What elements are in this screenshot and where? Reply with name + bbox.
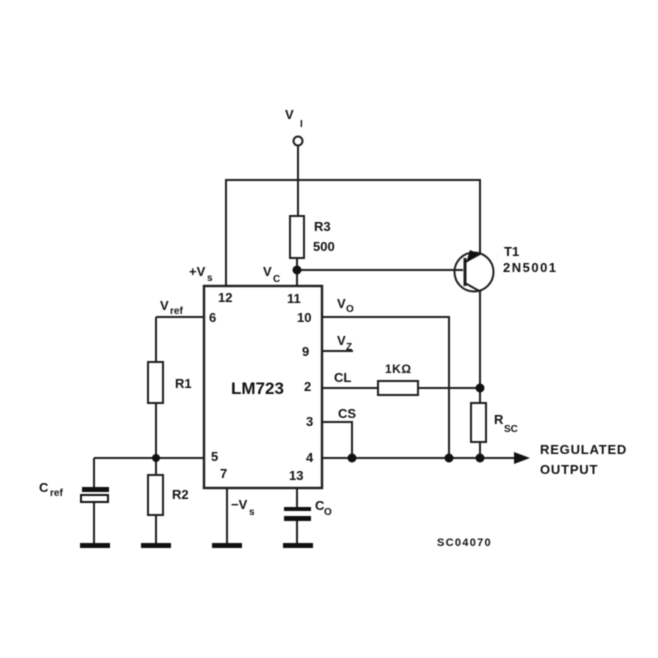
svg-text:9: 9 bbox=[302, 344, 309, 359]
svg-text:V: V bbox=[337, 296, 346, 311]
svg-text:5: 5 bbox=[211, 449, 218, 464]
node R1-R2 junction dot bbox=[152, 454, 160, 462]
wire Co to ground bbox=[296, 520, 298, 544]
wire Rsc to output rail bbox=[479, 442, 481, 458]
ground Co bbox=[283, 543, 313, 548]
svg-text:V: V bbox=[337, 333, 346, 348]
resistor R2 bbox=[148, 475, 163, 515]
svg-text:V: V bbox=[160, 298, 169, 313]
svg-text:ref: ref bbox=[50, 488, 63, 499]
svg-text:6: 6 bbox=[209, 310, 216, 325]
svg-text:2: 2 bbox=[304, 379, 311, 394]
svg-text:OUTPUT: OUTPUT bbox=[540, 462, 598, 477]
svg-text:500: 500 bbox=[313, 239, 335, 254]
svg-text:O: O bbox=[324, 507, 332, 518]
svg-text:SC: SC bbox=[504, 424, 518, 435]
node CS rail dot bbox=[348, 454, 357, 463]
svg-text:s: s bbox=[249, 507, 255, 518]
svg-text:R2: R2 bbox=[172, 487, 189, 502]
wire rail to T1 collector bbox=[479, 179, 481, 254]
wire Vref down to R1 bbox=[155, 317, 157, 362]
wire Vo pin 10 bbox=[322, 317, 449, 458]
ground Cref bbox=[80, 543, 110, 548]
svg-text:3: 3 bbox=[306, 414, 313, 429]
svg-text:R3: R3 bbox=[314, 219, 331, 234]
svg-text:12: 12 bbox=[218, 290, 232, 305]
wire -Vs pin 7 to ground bbox=[226, 488, 228, 544]
wire CS pin 3 stub bbox=[322, 422, 352, 458]
capacitor Co plates bbox=[284, 507, 311, 511]
node Vo rail dot bbox=[445, 454, 454, 463]
ground -Vs bbox=[212, 543, 242, 548]
svg-text:LM723: LM723 bbox=[231, 379, 284, 398]
svg-text:R1: R1 bbox=[175, 376, 192, 391]
svg-text:s: s bbox=[207, 273, 213, 284]
wire Vz stub pin 9 bbox=[322, 350, 353, 352]
wire resistor to emitter line bbox=[418, 387, 480, 389]
wire R1 to node bbox=[155, 403, 157, 458]
node V_I terminal bbox=[294, 137, 303, 146]
svg-text:−V: −V bbox=[231, 497, 248, 512]
wire T1 emitter down to Rsc bbox=[479, 291, 481, 403]
op-amp U1 LM723 box bbox=[204, 286, 322, 488]
wire Vref pin 6 bbox=[156, 316, 204, 318]
wire top rail bbox=[226, 179, 480, 181]
wire V_I down to R3 bbox=[297, 146, 299, 216]
svg-text:11: 11 bbox=[287, 291, 301, 306]
wire R2 top bbox=[155, 458, 157, 475]
wire R2 to ground bbox=[155, 515, 157, 544]
wire CL pin 2 to resistor bbox=[322, 387, 378, 389]
svg-text:1KΩ: 1KΩ bbox=[385, 362, 411, 376]
svg-text:10: 10 bbox=[297, 310, 311, 325]
wire Cref bottom to ground bbox=[93, 502, 95, 544]
wire R3 to pin 11 bbox=[296, 258, 298, 286]
output arrow head bbox=[514, 452, 530, 464]
svg-text:V: V bbox=[285, 107, 294, 122]
svg-text:Z: Z bbox=[346, 342, 352, 353]
resistor R1 bbox=[148, 362, 163, 403]
wire output rail pin 4 bbox=[322, 457, 515, 459]
wire Cref top bbox=[93, 458, 95, 489]
node CL junction dot bbox=[476, 384, 485, 393]
wire Co pin 13 bbox=[296, 488, 298, 509]
svg-text:T1: T1 bbox=[504, 244, 519, 259]
transistor emitter arrow bbox=[466, 250, 479, 263]
svg-text:4: 4 bbox=[306, 450, 314, 465]
node Vc junction dot bbox=[293, 266, 302, 275]
node Rsc rail dot bbox=[476, 454, 485, 463]
svg-text:13: 13 bbox=[289, 468, 303, 483]
wire base from Vc node bbox=[297, 269, 463, 271]
svg-text:2N5001: 2N5001 bbox=[503, 260, 558, 275]
wire node rail to pin 5 bbox=[94, 457, 204, 459]
svg-text:CL: CL bbox=[334, 370, 351, 385]
svg-text:O: O bbox=[346, 304, 354, 315]
resistor RSC bbox=[471, 403, 486, 442]
svg-text:SC04070: SC04070 bbox=[437, 537, 492, 549]
svg-text:7: 7 bbox=[220, 466, 227, 481]
transistor Q1 body bbox=[455, 253, 494, 292]
resistor R3 bbox=[290, 216, 304, 258]
svg-text:R: R bbox=[494, 412, 504, 427]
svg-text:C: C bbox=[273, 274, 280, 285]
svg-text:V: V bbox=[263, 264, 272, 279]
wire rail to pin 12 bbox=[225, 179, 227, 286]
svg-text:CS: CS bbox=[338, 406, 356, 421]
svg-text:+V: +V bbox=[189, 264, 206, 279]
capacitor Cref plates bbox=[82, 487, 109, 492]
resistor 1K bbox=[378, 381, 418, 395]
svg-text:ref: ref bbox=[170, 306, 183, 317]
svg-text:I: I bbox=[300, 119, 303, 130]
svg-text:REGULATED: REGULATED bbox=[540, 442, 627, 457]
svg-text:C: C bbox=[39, 480, 49, 495]
ground R2 bbox=[141, 543, 171, 548]
